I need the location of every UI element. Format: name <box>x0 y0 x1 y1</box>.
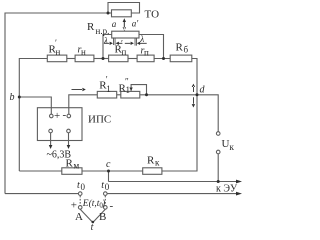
thermocouple electrode A <box>80 209 93 222</box>
resistor Rn.r. heater <box>112 10 132 17</box>
label Rb <box>176 42 189 55</box>
svg-text:н: н <box>81 47 86 57</box>
node Uk-EU junction <box>217 180 220 183</box>
svg-text:В: В <box>99 211 106 223</box>
arrow lambda right <box>137 42 147 45</box>
terminal t0 left <box>78 192 82 196</box>
wire <box>154 58 170 60</box>
wire slidewire left lead <box>103 35 112 59</box>
svg-text:a′: a′ <box>132 19 140 29</box>
terminal t0 right <box>104 192 108 196</box>
terminal IPS ac2 <box>67 129 71 133</box>
svg-text:R: R <box>87 21 95 33</box>
arrow node d down <box>192 97 195 107</box>
label t0 left <box>77 180 86 192</box>
svg-text:б: б <box>184 45 189 55</box>
label Rn.r. <box>87 21 109 36</box>
label t0 right <box>101 180 110 192</box>
wire left outer <box>5 13 108 194</box>
svg-text:): ) <box>101 198 105 209</box>
wire TO loop <box>108 3 140 14</box>
wire IPS minus to R1' <box>69 95 98 114</box>
wire node b <box>19 97 51 114</box>
wire node d to Uk contact <box>197 95 218 132</box>
node thermocouple junction t <box>92 221 95 224</box>
svg-text:c: c <box>106 159 111 170</box>
wire dashed thermocouple left <box>79 196 81 206</box>
svg-text:+: + <box>71 200 77 212</box>
svg-text:п: п <box>122 47 127 57</box>
wire node c branch <box>108 171 110 182</box>
arrow ac output 1 <box>49 145 53 149</box>
resistor Rk <box>143 168 162 175</box>
resistor R1'' <box>121 91 140 98</box>
arrow EU top <box>236 180 242 184</box>
terminal thermocouple A <box>78 206 82 210</box>
arrow ac output 2 <box>67 145 71 149</box>
resistor Rb <box>170 55 192 62</box>
wire dashed thermocouple right <box>104 196 106 206</box>
svg-text:ТО: ТО <box>145 9 160 21</box>
node junction slidewire left <box>102 57 105 60</box>
label Uk <box>222 138 235 152</box>
svg-text:λ: λ <box>103 35 108 45</box>
arrow R1'' wiper head <box>129 88 132 91</box>
arrow current direction to R1' <box>72 88 86 91</box>
svg-text:н: н <box>56 47 61 57</box>
node c <box>107 170 110 173</box>
contact Uk upper <box>216 132 220 136</box>
label E(t,t0) <box>82 198 105 210</box>
svg-text:1: 1 <box>126 85 131 95</box>
label Rk <box>147 155 160 168</box>
wire <box>94 58 109 60</box>
wire Rb to node d <box>162 59 197 172</box>
terminal thermocouple B <box>104 206 108 210</box>
wire EU top line <box>109 181 237 183</box>
svg-text:к ЭУ: к ЭУ <box>216 184 238 195</box>
terminal IPS ac1 <box>49 129 53 133</box>
resistor Rn' <box>47 55 67 62</box>
label R1'' <box>119 77 131 96</box>
node wiper junction <box>145 93 148 96</box>
wire Uk lower to EU line <box>217 154 219 182</box>
wire Rm row <box>19 170 62 172</box>
node d <box>196 93 199 96</box>
box IPS <box>37 108 82 141</box>
label R1' <box>99 75 110 94</box>
wire EU bottom line right <box>107 193 236 195</box>
contact Uk lower <box>216 150 220 154</box>
wire terminal stem minus <box>68 108 70 114</box>
resistor R1' <box>97 91 116 98</box>
svg-text:к: к <box>230 142 235 152</box>
node b <box>18 96 21 99</box>
svg-text:0: 0 <box>81 182 86 192</box>
terminal IPS minus <box>67 114 71 118</box>
wire row2 left <box>19 59 47 172</box>
svg-text:t: t <box>91 222 94 233</box>
arrow EU bottom <box>236 192 242 196</box>
label rn <box>78 45 87 58</box>
svg-text:п: п <box>144 48 149 58</box>
slider tick pair left <box>113 38 115 45</box>
node junction heater <box>107 12 110 15</box>
label Rn' <box>49 38 61 57</box>
arrow node d up <box>192 84 195 92</box>
resistor rp <box>137 55 154 62</box>
svg-text:+: + <box>54 110 60 122</box>
wire EU bottom line left <box>5 193 78 195</box>
wire <box>67 58 75 60</box>
svg-text:b: b <box>10 92 15 103</box>
resistor Rm <box>62 168 82 175</box>
wire <box>128 58 137 60</box>
svg-text:-: - <box>110 200 114 212</box>
node junction slidewire right <box>162 57 165 60</box>
thermocouple electrode B <box>93 209 106 222</box>
arrow coupling a-a' double <box>123 18 126 31</box>
slider tick pair right <box>135 38 137 46</box>
wire ac stem 1 <box>50 133 52 145</box>
svg-text:-: - <box>63 109 67 121</box>
resistor rn <box>75 55 94 62</box>
svg-text:0: 0 <box>105 182 110 192</box>
wire terminal stem plus <box>50 108 52 114</box>
svg-text:R: R <box>66 158 74 170</box>
svg-text:a: a <box>112 19 117 29</box>
arrow dim inner-left <box>116 42 123 45</box>
arrow dim inner-right <box>125 42 134 45</box>
wire ac stem 2 <box>68 133 70 145</box>
wire slidewire right lead <box>139 35 164 59</box>
svg-text:R: R <box>176 42 184 54</box>
arrow lambda left <box>104 42 113 45</box>
svg-text:к: к <box>155 158 160 168</box>
wire row3 right <box>140 94 197 96</box>
svg-text:1: 1 <box>106 84 111 94</box>
label Rm <box>66 158 80 171</box>
label rp <box>141 46 150 58</box>
svg-text:U: U <box>222 138 230 150</box>
resistor slidewire body <box>112 31 139 38</box>
svg-text:E(t,t: E(t,t <box>82 198 100 209</box>
wire <box>117 94 121 96</box>
resistor Rp' <box>109 55 128 62</box>
svg-text:ИПС: ИПС <box>88 114 111 126</box>
wire heater left lead <box>108 12 112 14</box>
label Rp' <box>115 39 127 58</box>
svg-text:λ: λ <box>139 34 144 44</box>
wire <box>82 170 143 172</box>
svg-text:А: А <box>75 211 83 223</box>
wire R1'' wiper loop <box>131 85 146 95</box>
terminal IPS plus <box>50 114 54 118</box>
svg-text:м: м <box>74 161 80 171</box>
svg-text:d: d <box>200 85 206 96</box>
svg-text:R: R <box>147 155 155 167</box>
